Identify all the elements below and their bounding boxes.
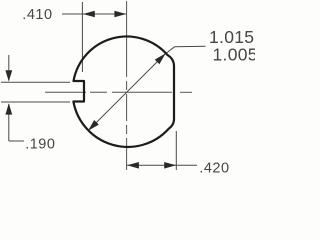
svg-text:.420: .420: [199, 160, 229, 176]
svg-text:1.005: 1.005: [213, 45, 256, 65]
svg-text:.410: .410: [22, 7, 52, 23]
svg-text:.190: .190: [25, 137, 55, 153]
